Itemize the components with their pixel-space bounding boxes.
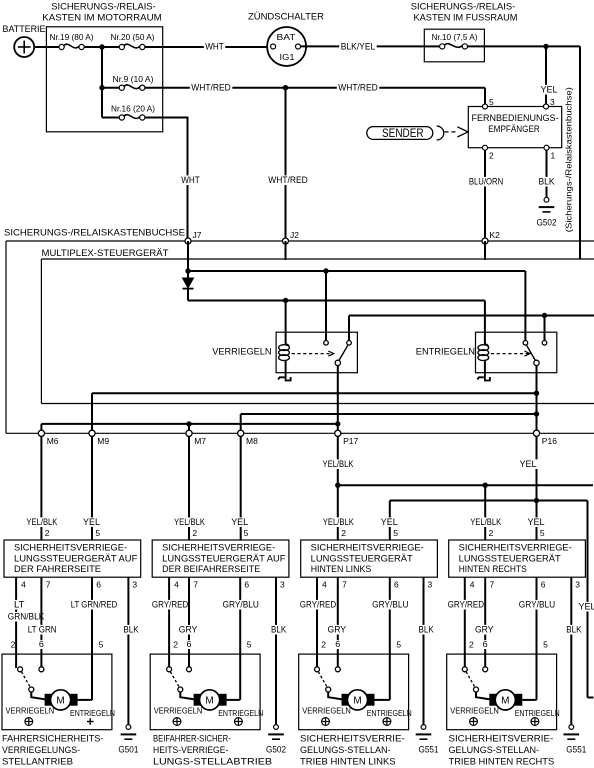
wire BLK pin 3 of rear right lock control unit to ground <box>565 577 583 725</box>
svg-text:VERRIEGELUNGS-: VERRIEGELUNGS- <box>2 745 80 755</box>
svg-text:SICHERHEITSVERRIE-: SICHERHEITSVERRIE- <box>449 734 554 744</box>
rear right lock control unit box <box>449 540 586 577</box>
svg-text:P16: P16 <box>542 436 557 446</box>
svg-text:GRN/BLK: GRN/BLK <box>8 612 45 622</box>
caption passenger lock actuator <box>153 734 272 767</box>
power feed bus to relay common contacts <box>349 316 594 341</box>
svg-text:WHT: WHT <box>181 175 200 185</box>
VERRIEGELN switch contacts <box>324 341 352 346</box>
svg-text:4: 4 <box>174 580 179 590</box>
svg-text:ENTRIEGELN: ENTRIEGELN <box>70 708 115 718</box>
wire YEL to pin 3 <box>539 46 559 106</box>
wire GRY/BLU pin 6 of passenger door lock control unit <box>221 577 260 700</box>
svg-text:GRY: GRY <box>179 625 198 635</box>
svg-text:YEL/BLK: YEL/BLK <box>470 517 502 527</box>
svg-text:ENTRIEGELN: ENTRIEGELN <box>515 708 560 718</box>
wire YEL P16 down rear-right pin 5 <box>518 436 538 540</box>
ENTRIEGELN coil actuation dashed link <box>491 351 530 356</box>
svg-text:VERRIEGELN: VERRIEGELN <box>302 706 351 716</box>
rear right lock actuator wire pivot to motor <box>476 692 489 700</box>
pin 2 of receiver <box>483 145 495 160</box>
passenger lock actuator switch blade dashed <box>170 672 179 687</box>
svg-text:5: 5 <box>489 97 494 107</box>
wire BLK receiver pin 1 to ground <box>537 150 556 200</box>
pin J7 <box>185 230 202 244</box>
wire lock bus down to M7 <box>188 424 190 433</box>
node unlock bus1 at P16 riser <box>534 391 539 396</box>
svg-text:GELUNGS-STELLAN-: GELUNGS-STELLAN- <box>449 745 540 755</box>
svg-text:BLK/YEL: BLK/YEL <box>341 42 376 52</box>
svg-text:3: 3 <box>550 97 555 107</box>
ground G501 <box>118 725 138 755</box>
svg-text:WHT/RED: WHT/RED <box>191 83 231 93</box>
fuse Nr.9 (10 A) <box>102 74 154 90</box>
svg-text:YEL/BLK: YEL/BLK <box>323 517 355 527</box>
lock bus to M6 and M7 <box>41 424 337 433</box>
pin P17 <box>335 430 359 446</box>
node J7 bus1 diode junction <box>185 268 190 273</box>
wire YEL M9 to driver unit pin 5 <box>91 436 93 540</box>
svg-text:VERRIEGELN: VERRIEGELN <box>212 347 271 357</box>
svg-text:5: 5 <box>247 640 252 650</box>
svg-text:LUNGS-STELLABTRIEB: LUNGS-STELLABTRIEB <box>153 757 272 767</box>
svg-text:BLK: BLK <box>419 625 435 635</box>
pin 6 label of driver lock actuator <box>37 640 45 649</box>
fuse Nr.16 (20 A) <box>102 104 155 120</box>
svg-text:2: 2 <box>489 528 494 538</box>
svg-text:7: 7 <box>193 580 198 590</box>
svg-text:ENTRIEGELN: ENTRIEGELN <box>218 708 263 718</box>
wire WHT/RED fuse Nr.9 to remote receiver pin 5 <box>145 83 485 107</box>
fuse box socket boundary <box>6 241 594 433</box>
svg-text:YEL: YEL <box>381 517 398 527</box>
svg-text:(Sicherungs-/Relaiskastenbuchs: (Sicherungs-/Relaiskastenbuchse) <box>565 87 574 232</box>
wire BLK pin 3 of rear left lock control unit to ground <box>417 577 435 725</box>
rear lock bus YEL/BLK <box>338 484 593 486</box>
wire bus2 to VERRIEGELN coil <box>285 301 287 345</box>
node WHT/RED branch to J2 <box>283 85 288 90</box>
rear right lock actuator switch contacts <box>462 667 487 672</box>
wire YEL/BLK P17 down rear-left pin 2 <box>321 436 355 540</box>
fuse/relay box engine compartment outline <box>46 27 162 132</box>
svg-text:BAT: BAT <box>277 32 296 42</box>
ENTRIEGELN coil lead hook <box>477 373 490 380</box>
wire WHT/RED down to J2 <box>267 88 310 241</box>
svg-text:STELLANTRIEB: STELLANTRIEB <box>2 757 73 767</box>
svg-text:KASTEN IM MOTORRAUM: KASTEN IM MOTORRAUM <box>42 13 162 24</box>
svg-text:2: 2 <box>489 151 494 161</box>
svg-text:G501: G501 <box>118 745 138 755</box>
internal bus from J7 to relay contacts <box>188 270 525 272</box>
svg-text:LT GRN/RED: LT GRN/RED <box>71 600 118 610</box>
rear left lock actuator switch contacts <box>315 667 341 672</box>
svg-text:YEL: YEL <box>231 517 248 527</box>
svg-text:2: 2 <box>341 528 346 538</box>
wire J2 stub into multiplex <box>285 241 287 260</box>
wire GRY pin 7 of rear right lock control unit <box>473 577 495 669</box>
driver lock actuator box <box>2 654 112 730</box>
svg-text:Nr.20 (50 A): Nr.20 (50 A) <box>111 32 155 42</box>
svg-text:SICHERHEITSVERRIEGE-: SICHERHEITSVERRIEGE- <box>14 543 127 553</box>
wire bus2 end to ENTRIEGELN coil <box>484 301 486 345</box>
svg-text:FAHRERSICHERHEITS-: FAHRERSICHERHEITS- <box>2 734 104 744</box>
unlock direction symbol in driver lock actuator <box>87 718 94 725</box>
svg-text:YEL: YEL <box>83 517 100 527</box>
svg-text:3: 3 <box>132 580 137 590</box>
ground G551 <box>416 725 439 755</box>
multiplex control unit MULTIPLEX-STEUERGERAET box <box>41 248 594 404</box>
relay ENTRIEGELN <box>416 332 557 373</box>
motor M of passenger lock actuator <box>194 690 227 710</box>
passenger lock actuator switch pivot <box>178 687 183 692</box>
svg-text:WHT/RED: WHT/RED <box>338 83 378 93</box>
node unlock bus2 at P16 riser <box>534 411 539 416</box>
wire YEL/BLK M7 to passenger unit pin 2 <box>188 436 190 540</box>
VERRIEGELN coil lead hook <box>278 373 291 380</box>
svg-text:4: 4 <box>322 580 327 590</box>
pin K2 <box>482 230 500 244</box>
wire K2 stub into multiplex <box>484 241 486 260</box>
svg-text:2: 2 <box>173 640 178 650</box>
passenger door lock control unit box <box>152 540 289 577</box>
node YEL rear distribution <box>534 498 539 503</box>
motor M of rear left lock actuator <box>342 690 375 710</box>
svg-text:WHT/RED: WHT/RED <box>268 175 308 185</box>
lock direction symbol in driver lock actuator <box>25 718 33 726</box>
internal bus2 diode output to relay coils <box>188 300 485 302</box>
rear unlock bus YEL <box>390 501 588 541</box>
svg-text:6: 6 <box>394 580 399 590</box>
node YEL branch to receiver pin 3 <box>543 44 548 49</box>
svg-text:J7: J7 <box>193 230 202 240</box>
rear left lock actuator wire pivot to motor <box>328 692 341 700</box>
ground G551 <box>564 725 587 755</box>
wire YEL fuse Nr.10 output <box>468 46 581 259</box>
fuse Nr.19 (80 A) <box>50 32 120 50</box>
wire battery to fuse box <box>34 46 59 48</box>
ignition switch ZUENDSCHALTER <box>248 12 324 67</box>
node rear-right lock branch <box>483 483 488 488</box>
fuse Nr.20 (50 A) <box>111 32 163 50</box>
svg-text:4: 4 <box>21 580 26 590</box>
svg-text:YEL: YEL <box>541 85 558 95</box>
motor M of driver lock actuator <box>45 690 78 710</box>
node lock bus to M7 <box>186 421 191 426</box>
wire bus1 to VERRIEGELN left contact <box>325 271 327 341</box>
battery B1 <box>3 24 46 57</box>
svg-text:M: M <box>353 696 361 707</box>
svg-text:GRY/RED: GRY/RED <box>152 600 189 610</box>
node lock bus at P17 riser <box>335 421 340 426</box>
pin 5 of receiver <box>483 97 495 109</box>
ENTRIEGELN relay coil <box>478 344 489 373</box>
wire GRY/RED pin 4 of rear left lock control unit <box>298 577 337 668</box>
svg-text:ENTRIEGELN: ENTRIEGELN <box>416 347 475 357</box>
rear left lock actuator box <box>299 654 409 730</box>
label wire colors above rear left lock control unit <box>321 517 399 527</box>
driver lock actuator switch pivot <box>29 687 34 692</box>
svg-text:BLU/ORN: BLU/ORN <box>469 177 503 187</box>
fuse/relay box (engine compartment) title <box>42 2 162 24</box>
rear right lock actuator box <box>447 654 557 730</box>
remote control receiver FERNBEDIENUNGS-EMPFAENGER U1 <box>468 107 561 148</box>
svg-text:HEITS-VERRIEGE-: HEITS-VERRIEGE- <box>153 745 228 755</box>
svg-text:SICHERHEITSVERRIE-: SICHERHEITSVERRIE- <box>300 734 405 744</box>
svg-text:YEL: YEL <box>520 459 537 469</box>
transmitter SENDER with arrow <box>367 126 468 140</box>
svg-text:GRY/RED: GRY/RED <box>300 600 337 610</box>
svg-text:BLK: BLK <box>123 625 139 635</box>
pin M7 <box>186 430 206 446</box>
node feed Nr.9 <box>99 85 104 90</box>
svg-text:TRIEB HINTEN RECHTS: TRIEB HINTEN RECHTS <box>449 757 555 767</box>
svg-text:6: 6 <box>39 639 44 649</box>
svg-text:IG1: IG1 <box>280 52 295 62</box>
wire GRY pin 7 of passenger door lock control unit <box>177 577 199 669</box>
wire LT GRN/RED pin 6 to driver actuator <box>69 577 119 700</box>
svg-text:6: 6 <box>541 580 546 590</box>
svg-text:J2: J2 <box>290 230 299 240</box>
svg-text:SENDER: SENDER <box>382 126 424 140</box>
pin P16 <box>533 430 557 446</box>
svg-text:LUNGSSTEUERGERÄT: LUNGSSTEUERGERÄT <box>311 554 414 564</box>
svg-text:BLK: BLK <box>271 625 287 635</box>
svg-text:5: 5 <box>244 528 249 538</box>
svg-text:ZÜNDSCHALTER: ZÜNDSCHALTER <box>248 12 324 23</box>
svg-text:Nr.9 (10 A): Nr.9 (10 A) <box>113 74 154 84</box>
svg-text:GRY/BLU: GRY/BLU <box>372 600 408 610</box>
label wire colors above driver door lock control unit <box>25 517 102 527</box>
svg-text:TRIEB HINTEN LINKS: TRIEB HINTEN LINKS <box>300 757 396 767</box>
svg-text:5: 5 <box>95 528 100 538</box>
svg-text:GRY/BLU: GRY/BLU <box>223 600 259 610</box>
lock direction symbol in rear right lock actuator <box>470 718 478 726</box>
svg-text:GRY/RED: GRY/RED <box>448 600 485 610</box>
wire GRY pin 7 of rear left lock control unit <box>326 577 348 669</box>
svg-text:SICHERHEITSVERRIEGE-: SICHERHEITSVERRIEGE- <box>459 543 572 553</box>
unlock direction symbol in rear right lock actuator <box>531 718 539 726</box>
svg-text:7: 7 <box>342 580 347 590</box>
wire GRY/RED pin 4 of passenger door lock control unit <box>150 577 189 668</box>
wire bus1 end to ENTRIEGELN left contact <box>524 271 526 341</box>
pin M8 <box>238 430 258 446</box>
wire LT GRN pin 7 to driver actuator <box>26 577 58 669</box>
svg-text:6: 6 <box>187 639 192 649</box>
wire YEL continuation off-page <box>577 501 594 698</box>
svg-text:SICHERUNGS-/RELAISKASTENBUCHSE: SICHERUNGS-/RELAISKASTENBUCHSE <box>4 228 185 238</box>
svg-text:MULTIPLEX-STEUERGERÄT: MULTIPLEX-STEUERGERÄT <box>42 248 169 258</box>
wire VERRIEGELN common down to P17 <box>337 366 339 434</box>
svg-text:GRY: GRY <box>475 625 494 635</box>
svg-text:LUNGSSTEUERGERÄT: LUNGSSTEUERGERÄT <box>459 554 562 564</box>
svg-text:SICHERHEITSVERRIEGE-: SICHERHEITSVERRIEGE- <box>162 543 275 553</box>
svg-text:3: 3 <box>575 580 580 590</box>
motor M of rear right lock actuator <box>489 690 522 710</box>
rear right lock actuator switch blade dashed <box>466 672 475 687</box>
svg-text:M: M <box>501 696 509 707</box>
rear left lock control unit box <box>301 540 438 577</box>
svg-text:DER BEIFAHRERSEITE: DER BEIFAHRERSEITE <box>162 564 260 574</box>
svg-text:VERRIEGELN: VERRIEGELN <box>154 706 203 716</box>
svg-text:SICHERUNGS-/RELAIS-: SICHERUNGS-/RELAIS- <box>51 2 156 13</box>
rear left lock actuator wire motor to pin 5 <box>375 699 390 701</box>
svg-text:BLK: BLK <box>566 625 582 635</box>
driver lock actuator wire motor to pin 5 <box>78 699 92 701</box>
svg-text:M6: M6 <box>47 436 59 446</box>
wire ENTRIEGELN common down to P16 <box>536 366 538 434</box>
svg-text:HINTEN RECHTS: HINTEN RECHTS <box>459 564 527 574</box>
svg-text:6: 6 <box>335 639 340 649</box>
svg-text:KASTEN IM FUSSRAUM: KASTEN IM FUSSRAUM <box>414 13 518 24</box>
svg-text:FERNBEDIENUNGS-: FERNBEDIENUNGS- <box>472 113 559 123</box>
wire BLK/YEL ignition IG1 to fuse box <box>301 42 425 52</box>
svg-text:SICHERUNGS-/RELAIS-: SICHERUNGS-/RELAIS- <box>411 2 516 13</box>
rear left lock actuator switch pivot <box>326 687 331 692</box>
VERRIEGELN switch common pivot <box>335 360 340 365</box>
rear right lock actuator wire motor to pin 5 <box>522 699 536 701</box>
svg-text:5: 5 <box>540 528 545 538</box>
unlock direction symbol in passenger lock actuator <box>235 718 243 726</box>
lock direction symbol in passenger lock actuator <box>173 718 181 726</box>
svg-text:6: 6 <box>96 580 101 590</box>
unlock bus to M9 <box>92 393 537 433</box>
svg-text:LUNGSSTEUERGERÄT AUF: LUNGSSTEUERGERÄT AUF <box>162 554 286 564</box>
svg-text:LUNGSSTEUERGERÄT AUF: LUNGSSTEUERGERÄT AUF <box>14 554 138 564</box>
ENTRIEGELN switch blade <box>527 345 536 360</box>
svg-text:G551: G551 <box>566 745 586 755</box>
svg-text:4: 4 <box>470 580 475 590</box>
svg-text:DER FAHRERSEITE: DER FAHRERSEITE <box>14 564 101 574</box>
svg-text:M7: M7 <box>194 436 206 446</box>
wire YEL/BLK M6 to driver unit pin 2 <box>40 436 42 540</box>
svg-text:5: 5 <box>393 528 398 538</box>
pin 6 label of passenger lock actuator <box>185 640 193 649</box>
fuse Nr.10 (7.5 A) <box>424 32 477 49</box>
svg-text:2: 2 <box>45 528 50 538</box>
caption rear left lock actuator <box>300 734 405 767</box>
svg-text:ENTRIEGELN: ENTRIEGELN <box>367 708 412 718</box>
svg-text:YEL/BLK: YEL/BLK <box>323 459 355 469</box>
ENTRIEGELN switch contacts <box>523 341 547 346</box>
ground G502 (receiver) <box>537 197 557 227</box>
caption driver lock actuator <box>2 734 104 767</box>
wire GRY/RED pin 4 of rear right lock control unit <box>446 577 485 668</box>
svg-text:G551: G551 <box>419 745 439 755</box>
VERRIEGELN switch blade <box>339 345 348 360</box>
svg-text:5: 5 <box>396 640 401 650</box>
pin M6 <box>38 430 58 446</box>
pin 3 of receiver <box>544 97 556 109</box>
pin 1 of receiver <box>544 145 556 160</box>
wire LT GRN/BLK pin 4 to driver actuator <box>6 577 46 668</box>
node feed to ENTRIEGELN right contact <box>542 313 547 318</box>
svg-text:3: 3 <box>428 580 433 590</box>
unlock direction symbol in rear left lock actuator <box>383 718 391 726</box>
wire BLK pin 3 of driver door lock control unit to ground <box>122 577 140 725</box>
svg-text:M9: M9 <box>97 436 109 446</box>
passenger lock actuator wire motor to pin 5 <box>227 699 241 701</box>
wire YEL/BLK down to rear-right pin 2 <box>484 485 486 540</box>
svg-text:P17: P17 <box>343 436 358 446</box>
svg-text:VERRIEGELN: VERRIEGELN <box>6 706 55 716</box>
diode D1 <box>183 271 194 301</box>
relay VERRIEGELN <box>212 332 357 373</box>
svg-text:6: 6 <box>483 639 488 649</box>
ground G502 <box>266 725 286 755</box>
pin 6 label of rear right lock actuator <box>481 640 489 649</box>
svg-text:GRY/BLU: GRY/BLU <box>519 600 555 610</box>
node bus2 to lock relay coil <box>283 298 288 303</box>
wire BLU/ORN receiver pin 2 to K2 <box>467 150 504 241</box>
svg-text:Nr.19 (80 A): Nr.19 (80 A) <box>50 32 94 42</box>
label wire colors above rear right lock control unit <box>469 517 546 527</box>
driver door lock control unit box <box>4 540 141 577</box>
wire YEL M8 to passenger unit pin 5 <box>240 436 242 540</box>
driver lock actuator switch contacts <box>18 667 44 672</box>
passenger lock actuator wire pivot to motor <box>180 692 193 700</box>
svg-text:7: 7 <box>490 580 495 590</box>
svg-text:K2: K2 <box>490 230 501 240</box>
svg-text:3: 3 <box>280 580 285 590</box>
svg-text:2: 2 <box>321 640 326 650</box>
fuse/relay box footwell outline <box>424 29 484 62</box>
svg-text:M8: M8 <box>246 436 258 446</box>
wire vertical inside fuse box <box>101 47 103 118</box>
rear left lock actuator switch blade dashed <box>318 672 327 687</box>
svg-text:G502: G502 <box>266 745 286 755</box>
svg-text:BATTERIE: BATTERIE <box>3 24 46 35</box>
pin 6 label of rear left lock actuator <box>334 640 342 649</box>
ENTRIEGELN switch common pivot <box>534 360 539 365</box>
svg-text:2: 2 <box>192 528 197 538</box>
passenger lock actuator box <box>150 654 260 730</box>
wire GRY/BLU pin 6 of rear left lock control unit <box>371 577 410 700</box>
svg-text:M: M <box>205 696 213 707</box>
node after Nr.19 <box>99 44 104 49</box>
svg-text:BLK: BLK <box>539 177 556 187</box>
svg-text:M: M <box>56 696 64 707</box>
fuse/relay box (footwell) title <box>411 2 518 24</box>
svg-text:G502: G502 <box>537 217 557 227</box>
svg-text:YEL: YEL <box>528 517 545 527</box>
svg-text:LT GRN: LT GRN <box>28 625 57 635</box>
lock direction symbol in rear left lock actuator <box>322 718 330 726</box>
svg-text:GRY: GRY <box>328 625 347 635</box>
unlock bus to M8 <box>241 414 537 433</box>
svg-text:7: 7 <box>46 580 51 590</box>
svg-text:BEIFAHRER-SICHER-: BEIFAHRER-SICHER- <box>153 734 231 744</box>
svg-text:WHT: WHT <box>205 42 224 52</box>
passenger lock actuator switch contacts <box>167 667 192 672</box>
svg-text:5: 5 <box>543 640 548 650</box>
driver lock actuator switch blade dashed <box>21 672 30 687</box>
svg-text:SICHERHEITSVERRIEGE-: SICHERHEITSVERRIEGE- <box>311 543 424 553</box>
socket bottom edge <box>6 432 594 434</box>
svg-text:VERRIEGELN: VERRIEGELN <box>450 706 499 716</box>
svg-text:1: 1 <box>551 151 556 161</box>
svg-text:YEL/BLK: YEL/BLK <box>26 517 58 527</box>
svg-text:GELUNGS-STELLAN-: GELUNGS-STELLAN- <box>300 745 391 755</box>
svg-text:YEL: YEL <box>579 602 594 612</box>
wire BLK pin 3 of passenger door lock control unit to ground <box>270 577 288 725</box>
svg-text:Nr.16 (20 A): Nr.16 (20 A) <box>111 104 155 114</box>
wire feed to ENTRIEGELN right contact <box>544 316 546 341</box>
svg-text:5: 5 <box>99 640 104 650</box>
wire GRY/BLU pin 6 of rear right lock control unit <box>517 577 556 700</box>
svg-text:YEL/BLK: YEL/BLK <box>174 517 206 527</box>
svg-text:HINTEN LINKS: HINTEN LINKS <box>311 564 372 574</box>
driver lock actuator wire pivot to motor <box>31 692 44 700</box>
